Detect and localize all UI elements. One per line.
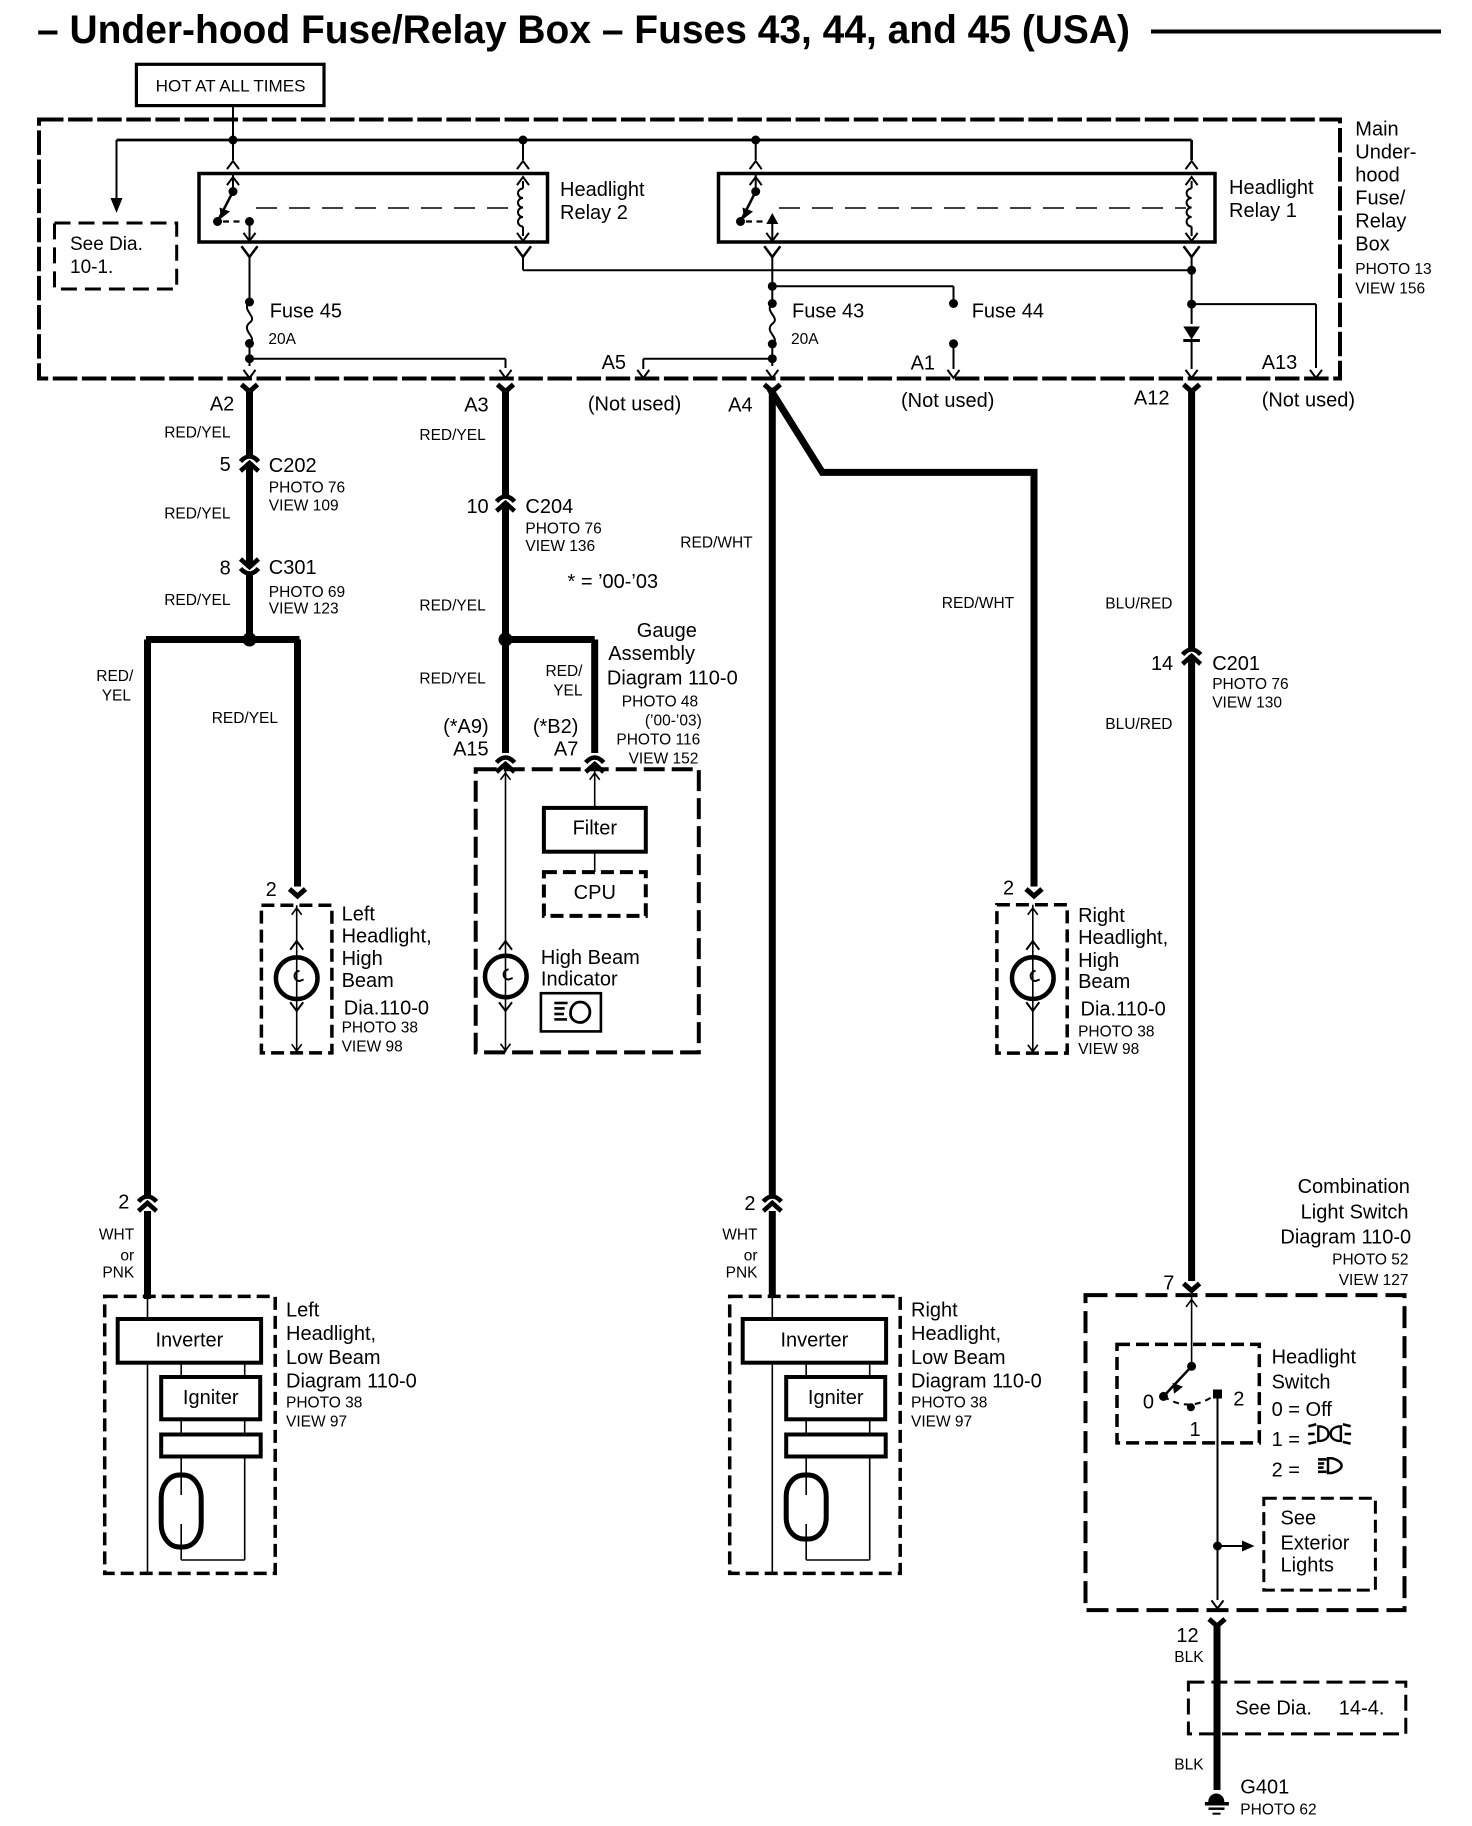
contact 2 square	[1214, 1390, 1222, 1398]
svg-text:Headlight: Headlight	[560, 179, 645, 201]
svg-text:VIEW 97: VIEW 97	[286, 1414, 347, 1431]
A2 trunk wire	[246, 389, 253, 636]
svg-text:WHT: WHT	[722, 1227, 758, 1244]
see exterior lights box	[1264, 1498, 1376, 1590]
svg-text:YEL: YEL	[102, 688, 132, 705]
svg-text:A1: A1	[911, 353, 935, 375]
svg-text:A7: A7	[554, 739, 578, 761]
svg-text:Diagram 110-0: Diagram 110-0	[1280, 1227, 1411, 1249]
svg-text:RED/YEL: RED/YEL	[164, 506, 231, 523]
inverter	[743, 1319, 886, 1363]
svg-text:Box: Box	[1355, 234, 1389, 256]
svg-text:hood: hood	[1355, 165, 1400, 187]
bulb (low beam)	[805, 1457, 807, 1496]
svg-text:Headlight,: Headlight,	[342, 926, 432, 948]
svg-text:5: 5	[220, 454, 231, 476]
relay 1 switch dashed link	[746, 220, 764, 222]
wire from HOT AT ALL TIMES down	[232, 106, 234, 140]
svg-text:Inverter: Inverter	[155, 1330, 223, 1352]
A15 leg	[502, 640, 509, 754]
igniter	[161, 1377, 260, 1419]
svg-text:2: 2	[744, 1193, 755, 1215]
A12 trunk wire	[1188, 389, 1195, 1281]
svg-text:C204: C204	[525, 496, 573, 518]
CPU box	[544, 872, 646, 916]
svg-text:8: 8	[220, 558, 231, 580]
svg-text:Light Switch: Light Switch	[1301, 1202, 1409, 1224]
svg-text:VIEW 98: VIEW 98	[1078, 1041, 1139, 1058]
svg-text:PHOTO 69: PHOTO 69	[269, 584, 345, 601]
relay 1 coil line down to A12	[1191, 257, 1193, 324]
A3 junction	[499, 633, 513, 647]
svg-text:PHOTO 52: PHOTO 52	[1332, 1252, 1408, 1269]
svg-text:10: 10	[466, 496, 488, 518]
svg-text:PHOTO 116: PHOTO 116	[616, 732, 700, 749]
svg-text:Diagram 110-0: Diagram 110-0	[286, 1371, 417, 1393]
relay 1 linkage dashed line	[779, 207, 1186, 209]
wire into inverter	[147, 1296, 149, 1319]
svg-text:A13: A13	[1262, 352, 1298, 374]
return wire	[147, 1363, 149, 1572]
svg-text:VIEW 98: VIEW 98	[342, 1038, 403, 1055]
relay 2 contact	[245, 217, 254, 226]
inverter	[118, 1319, 261, 1363]
svg-text:A3: A3	[464, 395, 488, 417]
svg-text:A2: A2	[210, 394, 234, 416]
svg-text:BLU/RED: BLU/RED	[1105, 716, 1172, 733]
svg-text:High Beam: High Beam	[541, 947, 640, 969]
svg-text:(*B2): (*B2)	[533, 716, 579, 738]
svg-text:PHOTO 38: PHOTO 38	[342, 1020, 418, 1037]
igniter-socket wires	[180, 1419, 182, 1434]
See Dia. 14-4. box	[1188, 1682, 1405, 1734]
svg-text:PHOTO 76: PHOTO 76	[525, 521, 601, 538]
relay 1 coil below-box chevron	[1184, 246, 1200, 257]
junction	[519, 136, 528, 145]
wire fuse 43 junction	[768, 282, 777, 291]
svg-text:PHOTO 38: PHOTO 38	[286, 1395, 362, 1412]
svg-text:Under-: Under-	[1355, 142, 1416, 164]
svg-text:10-1.: 10-1.	[70, 257, 113, 278]
svg-text:WHT: WHT	[99, 1227, 135, 1244]
bulb (left high beam)	[276, 957, 318, 999]
svg-text:VIEW 152: VIEW 152	[629, 751, 699, 768]
switch position 1 icon (parking lights)	[1308, 1424, 1351, 1443]
svg-text:G401: G401	[1240, 1777, 1289, 1799]
svg-text:Left: Left	[286, 1300, 320, 1322]
wire from contact 2 down	[1217, 1398, 1219, 1600]
svg-text:Inverter: Inverter	[780, 1330, 848, 1352]
left headlight high beam box	[261, 905, 332, 1053]
svg-text:Right: Right	[1078, 905, 1125, 927]
svg-text:PHOTO 48: PHOTO 48	[622, 694, 698, 711]
svg-text:1: 1	[1189, 1419, 1200, 1441]
svg-text:(*A9): (*A9)	[443, 716, 489, 738]
svg-text:Relay 1: Relay 1	[1229, 200, 1297, 222]
svg-text:See: See	[1281, 1508, 1317, 1530]
bulb wire	[1032, 905, 1034, 1053]
gauge assembly box	[476, 769, 699, 1052]
svg-text:RED/YEL: RED/YEL	[419, 427, 486, 444]
svg-text:PNK: PNK	[726, 1265, 759, 1282]
headlight relay 1 box	[719, 174, 1216, 243]
A7 leg	[591, 640, 598, 754]
svg-text:1 =: 1 =	[1272, 1429, 1300, 1451]
svg-text:PNK: PNK	[102, 1265, 135, 1282]
A3 trunk wire	[502, 389, 509, 640]
switch feed wire	[1191, 1295, 1193, 1366]
svg-text:Headlight,: Headlight,	[286, 1323, 376, 1345]
filter feed wire	[594, 769, 596, 808]
svg-text:VIEW 127: VIEW 127	[1339, 1272, 1409, 1289]
svg-text:20A: 20A	[268, 331, 296, 348]
svg-text:C201: C201	[1212, 653, 1260, 675]
svg-text:Main: Main	[1355, 119, 1398, 141]
svg-text:A5: A5	[602, 352, 626, 374]
headlight switch box	[1117, 1344, 1259, 1443]
socket box	[786, 1435, 886, 1457]
svg-text:RED/: RED/	[96, 668, 134, 685]
A4 trunk wire	[769, 389, 776, 1197]
fuse 45	[245, 298, 254, 307]
svg-text:Filter: Filter	[573, 818, 618, 840]
relay 2 switch	[232, 174, 234, 192]
svg-text:High: High	[1078, 950, 1119, 972]
junction	[1213, 1542, 1222, 1551]
svg-text:VIEW 97: VIEW 97	[911, 1414, 972, 1431]
title rule line	[1151, 30, 1441, 34]
svg-text:Combination: Combination	[1298, 1176, 1410, 1198]
connector A15	[497, 758, 515, 773]
svg-text:RED/WHT: RED/WHT	[680, 535, 753, 552]
wire filter to cpu	[594, 852, 596, 872]
connector A7	[586, 758, 604, 773]
relay 2 switch feed wire	[232, 140, 234, 160]
svg-text:Igniter: Igniter	[183, 1387, 239, 1409]
relay 1 switch	[755, 174, 757, 192]
svg-text:High: High	[342, 948, 383, 970]
wire + arrow to See Dia. 10-1.	[116, 140, 118, 198]
svg-text:or: or	[744, 1248, 758, 1265]
svg-text:VIEW 136: VIEW 136	[525, 538, 595, 555]
svg-text:Left: Left	[342, 904, 376, 926]
junction	[229, 136, 238, 145]
wire to fuse 44	[772, 285, 953, 287]
relay 2 coil below-box chevron	[515, 246, 531, 257]
wire to A5	[643, 358, 772, 360]
svg-text:VIEW 123: VIEW 123	[269, 601, 339, 618]
See Dia. 10-1. box	[55, 223, 177, 289]
svg-text:A12: A12	[1134, 388, 1170, 410]
svg-text:VIEW 156: VIEW 156	[1355, 281, 1425, 298]
svg-text:* = ’00-’03: * = ’00-’03	[568, 571, 659, 593]
svg-text:PHOTO 76: PHOTO 76	[1212, 676, 1288, 693]
svg-text:2: 2	[1003, 878, 1014, 900]
svg-text:Right: Right	[911, 1300, 958, 1322]
relay 1 coil wire from bus	[1190, 140, 1193, 160]
svg-text:20A: 20A	[791, 331, 819, 348]
socket box	[161, 1435, 261, 1457]
HOT AT ALL TIMES box	[136, 64, 324, 105]
diode	[1183, 327, 1200, 340]
right headlight low beam box	[730, 1296, 901, 1573]
igniter	[786, 1377, 885, 1419]
high beam indicator icon	[541, 993, 601, 1031]
svg-text:RED/YEL: RED/YEL	[212, 710, 279, 727]
svg-text:Headlight,: Headlight,	[911, 1323, 1001, 1345]
svg-text:Dia.110-0: Dia.110-0	[1081, 999, 1166, 1021]
filter box	[544, 808, 646, 852]
svg-text:Fuse/: Fuse/	[1355, 188, 1405, 210]
svg-text:or: or	[120, 1248, 134, 1265]
svg-text:RED/YEL: RED/YEL	[164, 425, 231, 442]
svg-text:14: 14	[1151, 653, 1173, 675]
svg-text:RED/WHT: RED/WHT	[942, 595, 1015, 612]
arrow to see exterior lights	[1218, 1545, 1244, 1547]
A2 T junction	[146, 636, 300, 643]
svg-text:See Dia.: See Dia.	[1235, 1698, 1312, 1720]
svg-text:7: 7	[1163, 1273, 1174, 1295]
bulb (low beam)	[180, 1457, 182, 1496]
svg-text:PHOTO 38: PHOTO 38	[1078, 1024, 1154, 1041]
svg-text:– Under-hood Fuse/Relay Box –: – Under-hood Fuse/Relay Box – Fuses 43, …	[37, 8, 1130, 52]
headlight relay 2 box	[199, 174, 548, 243]
relay 1 switch feed wire	[755, 140, 757, 160]
relay 2 linkage dashed line	[256, 207, 518, 209]
wire 12 to ground	[1214, 1623, 1221, 1790]
svg-text:Assembly: Assembly	[608, 643, 695, 665]
svg-text:Fuse 44: Fuse 44	[972, 301, 1044, 323]
combination light switch box	[1086, 1295, 1405, 1610]
switch position 2 icon (headlight)	[1318, 1458, 1342, 1473]
return wire	[771, 1363, 773, 1572]
svg-text:Fuse 45: Fuse 45	[270, 301, 342, 323]
svg-text:Relay: Relay	[1355, 211, 1406, 233]
left leg trunk to inverter	[144, 640, 151, 1198]
svg-text:Gauge: Gauge	[637, 620, 697, 642]
svg-text:Diagram 110-0: Diagram 110-0	[911, 1371, 1042, 1393]
svg-text:C202: C202	[269, 455, 317, 477]
wire fuse 45 to A3	[250, 358, 506, 360]
svg-text:YEL: YEL	[553, 683, 583, 700]
svg-text:CPU: CPU	[574, 882, 616, 904]
bulb (right high beam)	[1012, 957, 1054, 999]
wire into inverter	[771, 1296, 773, 1319]
switch position arc	[1164, 1394, 1217, 1405]
svg-text:2: 2	[118, 1192, 129, 1214]
igniter-socket wires	[805, 1419, 807, 1434]
relay 2 switch dashed link	[223, 220, 242, 222]
svg-text:HOT AT ALL TIMES: HOT AT ALL TIMES	[156, 76, 306, 95]
ground G401	[1209, 1794, 1224, 1801]
svg-text:Igniter: Igniter	[808, 1387, 864, 1409]
relay 1 coil	[1186, 177, 1198, 185]
svg-text:VIEW 130: VIEW 130	[1212, 695, 1282, 712]
inverter-igniter wires	[805, 1363, 807, 1377]
svg-text:2 =: 2 =	[1272, 1460, 1300, 1482]
svg-text:C301: C301	[269, 557, 317, 579]
svg-text:Dia.110-0: Dia.110-0	[344, 998, 429, 1020]
svg-text:VIEW 109: VIEW 109	[269, 498, 339, 515]
svg-text:12: 12	[1176, 1625, 1198, 1647]
right leg trunk to left high beam	[294, 640, 301, 887]
svg-text:0: 0	[1143, 1392, 1154, 1414]
svg-text:0 = Off: 0 = Off	[1272, 1399, 1333, 1421]
svg-text:RED/YEL: RED/YEL	[164, 592, 231, 609]
svg-text:Low Beam: Low Beam	[911, 1347, 1006, 1369]
svg-text:14-4.: 14-4.	[1339, 1698, 1385, 1720]
svg-text:Beam: Beam	[342, 970, 394, 992]
svg-text:Low Beam: Low Beam	[286, 1347, 381, 1369]
svg-text:A15: A15	[453, 739, 489, 761]
svg-text:(’00-’03): (’00-’03)	[645, 713, 702, 730]
svg-text:PHOTO 76: PHOTO 76	[269, 480, 345, 497]
svg-text:2: 2	[266, 879, 277, 901]
relay 2 contact below-box chevron	[242, 246, 258, 257]
relay 2 coil	[517, 177, 529, 185]
svg-text:(Not used): (Not used)	[1262, 390, 1355, 412]
relay 1 contact below-box chevron	[764, 246, 780, 257]
svg-text:RED/: RED/	[545, 663, 583, 680]
junction fuse45/A3 wire	[245, 354, 254, 363]
svg-text:Switch: Switch	[1272, 1372, 1331, 1394]
svg-text:Diagram 110-0: Diagram 110-0	[607, 668, 738, 690]
svg-text:BLU/RED: BLU/RED	[1105, 596, 1172, 613]
svg-text:See Dia.: See Dia.	[70, 234, 143, 255]
svg-text:PHOTO 13: PHOTO 13	[1355, 261, 1431, 278]
A1 stub	[949, 339, 958, 348]
junction	[1187, 266, 1196, 275]
bulb wire	[296, 905, 298, 1053]
left headlight low beam box	[105, 1296, 276, 1573]
svg-text:RED/YEL: RED/YEL	[419, 671, 486, 688]
headlight switch	[1187, 1362, 1196, 1371]
junction fuse43/A5 wire	[768, 354, 777, 363]
svg-text:(Not used): (Not used)	[901, 390, 994, 412]
svg-text:Exterior: Exterior	[1281, 1533, 1350, 1555]
relay 2 coil feed	[522, 140, 524, 160]
svg-text:A4: A4	[728, 395, 752, 417]
top bus wire	[117, 139, 1192, 142]
high beam indicator wire	[505, 769, 507, 1052]
svg-text:Headlight,: Headlight,	[1078, 927, 1168, 949]
high beam indicator bulb	[485, 956, 527, 998]
wire relay2 coil to relay1 coil line	[522, 257, 524, 270]
svg-text:PHOTO 38: PHOTO 38	[911, 1395, 987, 1412]
relay 1 contact (arrow up)	[766, 213, 778, 224]
svg-text:RED/YEL: RED/YEL	[419, 598, 486, 615]
junction	[751, 136, 760, 145]
A4 branch diagonal to right high beam	[770, 389, 1034, 887]
svg-text:Fuse 43: Fuse 43	[792, 301, 864, 323]
svg-text:BLK: BLK	[1174, 1649, 1204, 1666]
wire to A13	[1192, 303, 1316, 305]
main under-hood fuse/relay box (dashed)	[39, 120, 1340, 379]
svg-text:(Not used): (Not used)	[588, 394, 681, 416]
right headlight high beam box	[997, 905, 1067, 1053]
svg-text:Beam: Beam	[1078, 971, 1130, 993]
svg-text:Lights: Lights	[1281, 1555, 1334, 1577]
svg-text:2: 2	[1233, 1389, 1244, 1411]
svg-text:Headlight: Headlight	[1272, 1347, 1357, 1369]
svg-text:PHOTO 62: PHOTO 62	[1240, 1802, 1316, 1819]
fuse 43	[768, 299, 777, 308]
svg-text:Indicator: Indicator	[541, 969, 618, 991]
svg-text:Relay 2: Relay 2	[560, 202, 628, 224]
junction A13 branch	[1187, 300, 1196, 309]
svg-text:BLK: BLK	[1174, 1757, 1204, 1774]
inverter-igniter wires	[180, 1363, 182, 1377]
svg-text:Headlight: Headlight	[1229, 177, 1314, 199]
